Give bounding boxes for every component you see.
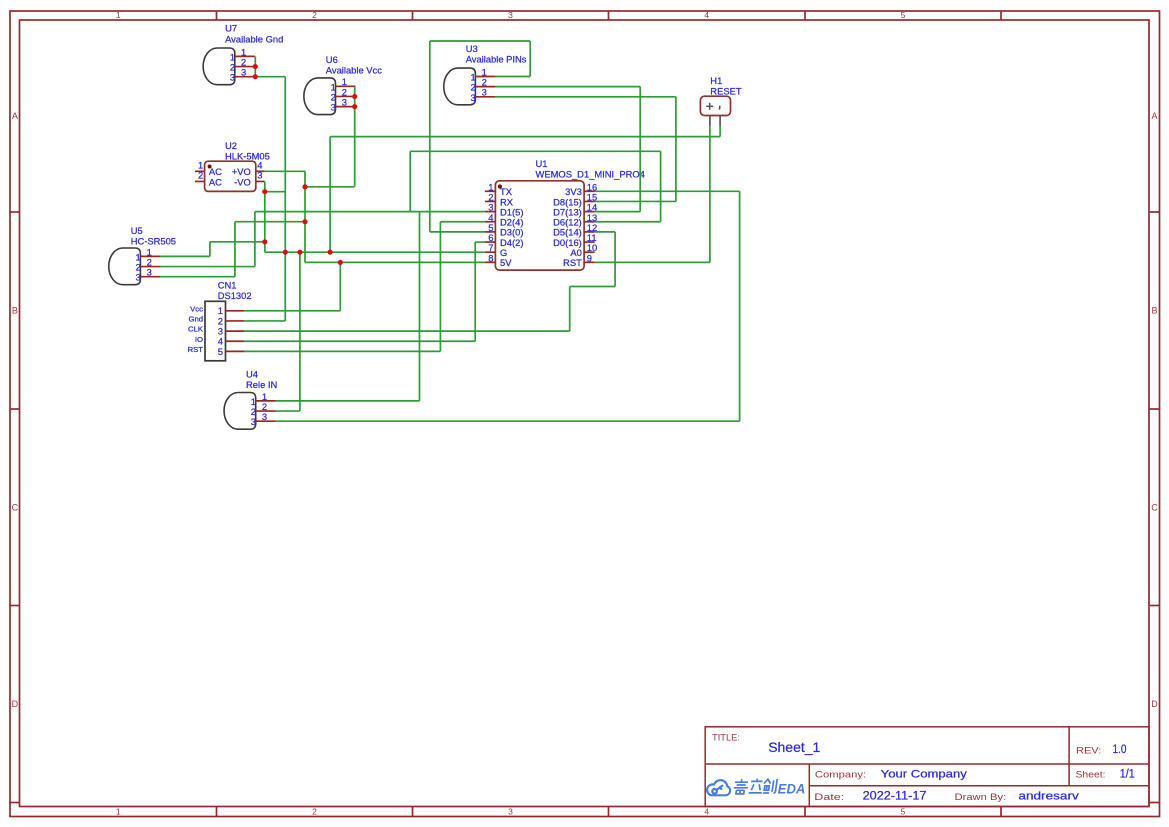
junction +5V / CN1 Vcc branch bbox=[338, 260, 343, 265]
wire +5V: branch to CN1 pin1 Vcc bbox=[244, 262, 340, 310]
svg-text:2: 2 bbox=[312, 10, 317, 20]
svg-text:AC: AC bbox=[209, 176, 222, 187]
svg-text:3: 3 bbox=[257, 170, 262, 181]
svg-text:HLK-5M05: HLK-5M05 bbox=[225, 150, 270, 161]
svg-text:9: 9 bbox=[587, 252, 592, 263]
svg-text:1: 1 bbox=[116, 806, 121, 816]
svg-text:Gnd: Gnd bbox=[188, 314, 203, 323]
wire RST: CN1 pin5 to U1 D2(4) bbox=[244, 222, 485, 352]
wire +5V: U2 +VO down to U1 pin 5V bbox=[265, 171, 485, 262]
svg-text:-VO: -VO bbox=[234, 176, 251, 187]
wire GND: -VO link to U7 vertical bbox=[265, 191, 286, 193]
svg-text:8: 8 bbox=[488, 252, 493, 263]
frame row letters bbox=[12, 111, 1159, 709]
junction GND rail / U4 pin2 bbox=[297, 250, 302, 255]
svg-text:U3: U3 bbox=[466, 43, 478, 54]
svg-text:C: C bbox=[12, 503, 19, 513]
svg-text:A: A bbox=[12, 111, 18, 121]
EasyEDA logo cloud bbox=[707, 780, 730, 795]
svg-text:Sheet_1: Sheet_1 bbox=[768, 739, 820, 755]
svg-text:U6: U6 bbox=[326, 54, 338, 65]
svg-text:WEMOS_D1_MINI_PRO4: WEMOS_D1_MINI_PRO4 bbox=[536, 168, 645, 179]
svg-text:5V: 5V bbox=[500, 257, 512, 268]
svg-text:Vcc: Vcc bbox=[190, 304, 203, 313]
svg-text:Available Vcc: Available Vcc bbox=[326, 64, 382, 75]
svg-text:EDA: EDA bbox=[778, 781, 806, 796]
svg-text:U1: U1 bbox=[536, 158, 548, 169]
wire D7: U3 pin2 to U1 D7(13) bbox=[495, 87, 640, 212]
junction U7 pin2 bbox=[253, 64, 258, 69]
wire +5V: branch to U6 bbox=[305, 86, 355, 187]
regulator U2 HLK-5M05 bbox=[195, 140, 270, 191]
svg-text:Available Gnd: Available Gnd bbox=[225, 34, 283, 45]
svg-text:CLK: CLK bbox=[188, 325, 204, 334]
wire GND: U2 -VO down to G rail and to U1 pin G bbox=[265, 181, 485, 252]
wire D1/D6 link vertical bbox=[409, 151, 411, 211]
module U1 WEMOS_D1_MINI_PRO4 bbox=[485, 158, 645, 270]
svg-text:IO: IO bbox=[195, 335, 203, 344]
H1 pin stubs bbox=[709, 116, 711, 127]
svg-text:B: B bbox=[12, 306, 18, 316]
svg-text:3: 3 bbox=[147, 267, 152, 278]
svg-text:5: 5 bbox=[901, 806, 906, 816]
svg-text:B: B bbox=[1151, 306, 1157, 316]
svg-text:Drawn By:: Drawn By: bbox=[955, 792, 1007, 803]
title block bbox=[705, 727, 1149, 807]
wire D6: U1 D6(12) up-left bbox=[410, 151, 660, 221]
junction U6 pin2 bbox=[352, 94, 357, 99]
junction U7 pin3 bbox=[253, 74, 258, 79]
connector U6 Available Vcc bbox=[304, 54, 382, 115]
jumper H1 RESET bbox=[700, 75, 741, 126]
svg-text:3: 3 bbox=[251, 416, 256, 427]
svg-text:D: D bbox=[12, 699, 19, 709]
svg-text:Sheet:: Sheet: bbox=[1076, 770, 1106, 781]
wire D8: U3 pin3 to U1 D8(15) bbox=[495, 97, 676, 202]
wire GND: U7 pins tie down to CN1 pin2 bbox=[244, 56, 285, 321]
svg-text:RST: RST bbox=[563, 257, 582, 268]
svg-text:U5: U5 bbox=[131, 225, 143, 236]
svg-text:3: 3 bbox=[470, 92, 475, 103]
svg-text:andresarv: andresarv bbox=[1018, 790, 1079, 802]
EasyEDA logo CJK text 嘉立创 bbox=[733, 779, 777, 794]
wire IO: CN1 pin4 to U1 D4(2) bbox=[244, 242, 485, 341]
svg-text:Date:: Date: bbox=[814, 792, 844, 803]
svg-text:1: 1 bbox=[116, 10, 121, 20]
svg-text:3: 3 bbox=[342, 97, 347, 108]
svg-text:2: 2 bbox=[198, 170, 203, 181]
connector U3 Available PINs bbox=[444, 43, 527, 105]
svg-text:TITLE:: TITLE: bbox=[712, 732, 740, 742]
svg-text:Available PINs: Available PINs bbox=[466, 54, 527, 65]
svg-text:DS1302: DS1302 bbox=[218, 290, 252, 301]
wire D3: U3 pin1 loop to U1 D3(0) bbox=[430, 41, 530, 232]
svg-text:D: D bbox=[1151, 699, 1158, 709]
svg-text:1.0: 1.0 bbox=[1113, 744, 1127, 756]
svg-text:Your Company: Your Company bbox=[881, 769, 968, 781]
svg-text:3: 3 bbox=[508, 10, 513, 20]
svg-text:A: A bbox=[1151, 111, 1157, 121]
junction U6 pin3 bbox=[352, 104, 357, 109]
connector U4 Rele IN bbox=[224, 369, 277, 430]
junction GND rail / CN1 Gnd bbox=[283, 250, 288, 255]
junction GND rail / H1 pin2 bbox=[328, 250, 333, 255]
wire 3V3: U1 3V3 to U4 pin3 bbox=[276, 191, 740, 421]
svg-text:Rele IN: Rele IN bbox=[246, 379, 277, 390]
wire RESET: U1 RST to H1 pin1 bbox=[595, 126, 710, 262]
svg-text:3: 3 bbox=[482, 87, 487, 98]
junction +5V / U6 branch bbox=[302, 184, 307, 189]
wire D1: U4 pin1 up bbox=[276, 212, 420, 401]
connector U5 HC-SR505 bbox=[109, 225, 176, 285]
frame column numbers bbox=[116, 10, 906, 816]
svg-text:2: 2 bbox=[312, 806, 317, 816]
svg-text:RESET: RESET bbox=[710, 86, 742, 97]
svg-text:3: 3 bbox=[230, 72, 235, 83]
svg-text:Company:: Company: bbox=[815, 769, 866, 780]
svg-text:4: 4 bbox=[704, 806, 709, 816]
svg-text:U2: U2 bbox=[225, 140, 237, 151]
wire +5V: branch to U5 pin3 bbox=[160, 222, 305, 277]
svg-text:3: 3 bbox=[508, 806, 513, 816]
svg-text:4: 4 bbox=[704, 10, 709, 20]
svg-text:5: 5 bbox=[218, 346, 223, 357]
svg-text:1/1: 1/1 bbox=[1120, 768, 1135, 780]
wire GND: U4 pin2 up to G rail bbox=[276, 252, 300, 411]
svg-text:H1: H1 bbox=[710, 75, 722, 86]
junction +5V / U5 pin3 branch bbox=[302, 219, 307, 224]
wire D1: U5 pin2 up to U1 D1(5) bbox=[160, 212, 485, 267]
svg-text:C: C bbox=[1151, 503, 1158, 513]
header CN1 DS1302 bbox=[188, 280, 252, 361]
svg-text:5: 5 bbox=[901, 10, 906, 20]
wire GND: H1 pin2 down-left to G rail bbox=[330, 126, 720, 252]
svg-text:U4: U4 bbox=[246, 369, 258, 380]
junction GND / U5 pin1 branch bbox=[262, 239, 267, 244]
svg-text:3: 3 bbox=[262, 411, 267, 422]
wire CLK: CN1 pin3 to U1 D5(14) bbox=[244, 232, 615, 331]
svg-text:3: 3 bbox=[135, 272, 140, 283]
svg-text:3: 3 bbox=[331, 102, 336, 113]
svg-text:U7: U7 bbox=[225, 22, 237, 33]
connector U7 Available Gnd bbox=[203, 22, 283, 84]
svg-text:3: 3 bbox=[241, 67, 246, 78]
wire GND: U5 pin1 bbox=[160, 242, 265, 257]
svg-text:2022-11-17: 2022-11-17 bbox=[863, 790, 927, 802]
svg-text:RST: RST bbox=[188, 345, 204, 354]
svg-text:REV:: REV: bbox=[1076, 746, 1101, 757]
svg-text:HC-SR505: HC-SR505 bbox=[131, 235, 176, 246]
junction GND / U7 link bbox=[262, 189, 267, 194]
